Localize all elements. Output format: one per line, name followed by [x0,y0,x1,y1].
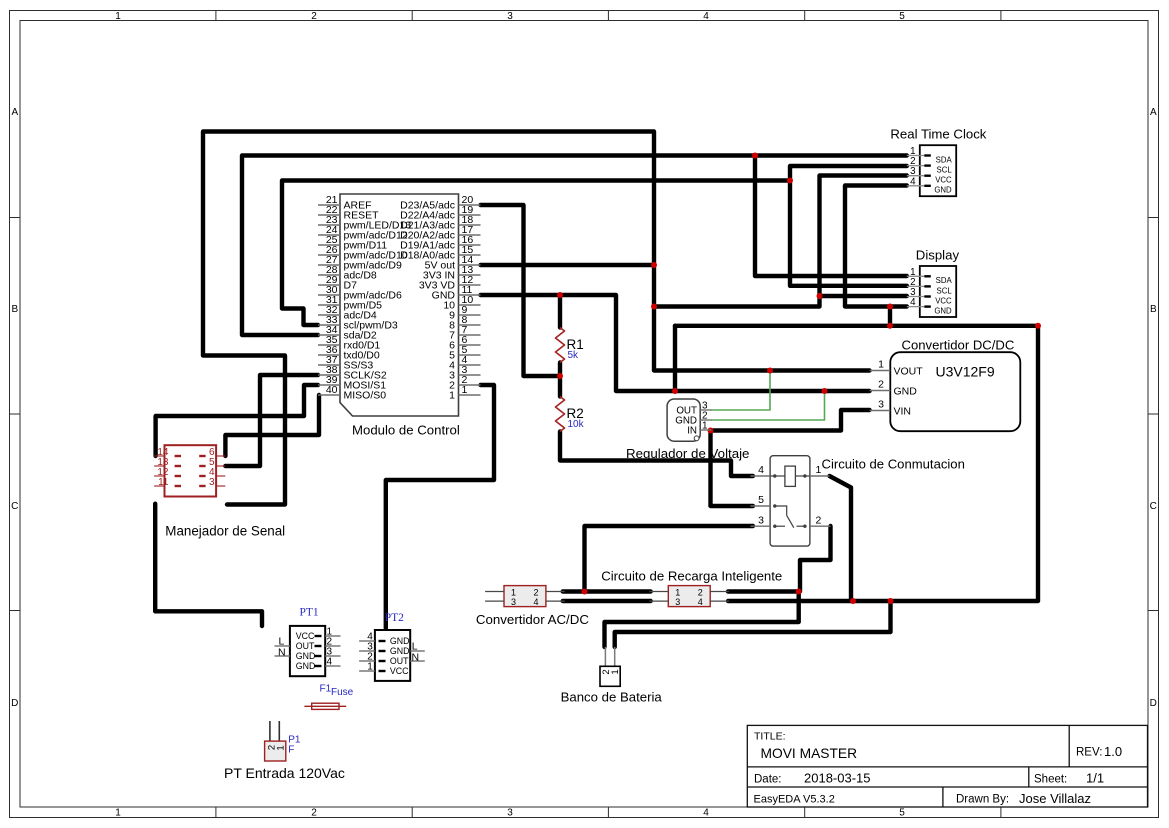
U1 pin 34 (sda/D2) [318,324,377,341]
svg-text:5k: 5k [568,350,580,361]
PT1 pin L [275,636,290,648]
wire GND (RTC pin 4 to Display pin 4) [845,186,907,307]
wire VCC (RTC pin 3) [654,176,907,307]
svg-text:REV:: REV: [1076,747,1102,759]
svg-text:Sheet:: Sheet: [1034,774,1067,786]
resistor R2 (10k) [556,397,585,432]
U1 pin 9 (9) [449,304,480,321]
U1 pin 23 (pwm/LED/D13) [318,214,411,231]
junction VCC display [817,293,823,299]
svg-text:2018-03-15: 2018-03-15 [804,771,871,786]
svg-text:Convertidor DC/DC: Convertidor DC/DC [902,338,1015,353]
U1 pin 22 (RESET) [318,204,379,221]
svg-text:B: B [11,304,18,315]
wire AC/DC to charger (bottom) [563,599,651,603]
svg-text:11: 11 [158,477,169,488]
U1 pin 4 (4) [449,354,480,371]
svg-text:VCC: VCC [296,631,315,641]
svg-text:B: B [1150,304,1157,315]
junction VCC [651,304,657,310]
U1 pin 33 (scl/pwm/D3) [318,314,398,331]
junction GND display [887,304,893,310]
regulator pin 3 (OUT) [676,401,711,417]
svg-text:1: 1 [115,11,121,22]
svg-text:2: 2 [533,587,538,597]
wire SDA branch to Display pin 1 [755,156,907,277]
U1 pin 5 (5) [449,344,480,361]
U1 pin 12 (3V3 VD) [419,274,481,291]
svg-text:SDA: SDA [936,276,953,285]
PT1 pin 4 [296,657,341,671]
relay switch contacts row [775,525,785,527]
svg-text:1: 1 [675,587,680,597]
svg-text:Real Time Clock: Real Time Clock [890,127,986,142]
U1 pin 38 (SCLK/S2) [318,364,387,381]
svg-text:F: F [288,744,294,755]
svg-text:5: 5 [899,11,905,22]
U3V12F9 pin 2 (GND) [870,379,918,398]
regulator pin 2 (GND) [675,411,711,427]
relay pin 2 [810,514,831,526]
junction GND [672,388,678,394]
junction charger input [582,589,588,595]
junction 5V out [651,262,657,268]
svg-text:D: D [1150,698,1157,709]
svg-text:3: 3 [209,477,215,488]
U1 pin 29 (D7) [318,274,357,291]
CN_RTC pin 4 [907,176,952,194]
svg-text:VOUT: VOUT [894,365,924,377]
wire relay pin 1 [830,476,852,601]
wire battery pin 2 [605,592,799,648]
U1 pin 20 (D23/A5/adc) [400,194,480,211]
svg-text:PT2: PT2 [385,612,404,624]
U3V12F9 pin 1 (VOUT) [870,359,924,378]
wire regulator GND (green) [712,391,825,420]
svg-text:2: 2 [816,514,822,526]
wire GND (U1 pin 11 to DC/DC pin 2) [481,295,870,391]
wire GND branch [888,307,892,326]
U1 pin 32 (adc/D4) [318,304,377,321]
U1 pin 2 (2) [449,374,480,391]
CN1 pin 6 [199,447,225,458]
U1 pin 3 (3) [449,364,480,381]
U1 pin 28 (adc/D8) [318,264,377,281]
svg-text:2: 2 [878,379,884,391]
wire SCL (RTC pin 2 to Display pin 2) [790,166,907,286]
PT2 pin 4 [359,632,409,646]
svg-text:GND: GND [934,186,952,195]
svg-text:VIN: VIN [894,405,912,417]
PT1 pin 3 [296,647,341,661]
junction charger output [796,589,802,595]
U1 pin 1 (1) [449,384,480,401]
svg-text:Circuito de Recarga Inteligent: Circuito de Recarga Inteligente [601,569,782,584]
battery connector Banco de Bateria [561,647,663,705]
junction SCL [787,178,793,184]
wire regulator OUT (green) [712,371,771,411]
wire SDA (U1 pin 34 to RTC pin 1) [242,156,907,336]
relay pin 5 [751,494,771,506]
U1 pin 6 (6) [449,334,480,351]
U1 pin 27 (pwm/adc/D9) [318,254,402,271]
svg-text:1: 1 [511,587,516,597]
svg-text:1: 1 [449,390,455,402]
PT2 pin 3 [359,642,409,656]
svg-text:5: 5 [899,808,905,819]
CN1 pin 13 [154,457,181,468]
PT2 pin 2 [359,652,409,666]
U1 pin 14 (5V out) [425,254,481,271]
svg-text:OUT: OUT [296,641,315,651]
svg-text:GND: GND [390,646,410,656]
svg-text:10k: 10k [568,419,585,430]
CN_DISP pin 4 [907,297,952,315]
title block [747,725,1147,807]
svg-text:GND: GND [296,651,316,661]
U3V12F9 pin 3 (VIN) [870,399,911,418]
U1 pin 40 (MISO/S0) [318,384,386,401]
wire stub near PT1 [155,504,262,626]
svg-text:SCL: SCL [937,166,953,175]
junction GND rail corner [1035,323,1041,329]
wire AC/DC to charger (top) [563,589,651,593]
svg-text:OUT: OUT [390,656,409,666]
wire relay pin 3 [585,526,754,592]
svg-text:1/1: 1/1 [1086,771,1104,786]
svg-text:Fuse: Fuse [331,687,354,698]
PT2 pin N [410,652,425,664]
svg-text:MOVI MASTER: MOVI MASTER [761,746,858,761]
regulator pin 1 (IN) [687,421,711,437]
svg-text:Circuito de Conmutacion: Circuito de Conmutacion [822,457,965,472]
PT2 pin L [410,641,425,653]
module U3V12F9 Convertidor DC/DC [870,338,1021,432]
CN_DISP pin 3 [907,287,952,305]
connector P1 (mains plug) [224,721,345,781]
svg-text:VCC: VCC [390,666,409,676]
junction R1/R2 node [557,373,563,379]
U1 pin 39 (MOSI/S1) [318,374,386,391]
svg-text:2: 2 [698,587,703,597]
wire battery pin 1 [615,601,891,647]
svg-text:4: 4 [910,297,916,308]
svg-text:SCL: SCL [937,286,953,295]
svg-text:GND: GND [934,307,952,316]
svg-text:PT Entrada 120Vac: PT Entrada 120Vac [224,765,345,781]
svg-text:Manejador de Senal: Manejador de Senal [165,524,285,539]
CN_RTC pin 2 [907,156,953,174]
svg-text:2: 2 [311,11,317,22]
regulator clock mark [694,436,699,441]
svg-text:1.0: 1.0 [1104,744,1122,759]
PT1 pin 2 [296,637,341,651]
svg-text:Banco de Bateria: Banco de Bateria [561,690,663,705]
transformer PT2 [359,612,425,681]
svg-text:1: 1 [115,808,121,819]
svg-text:N: N [412,652,420,664]
svg-text:1: 1 [702,421,708,432]
wire SCL (U1 pin 33) [282,181,790,326]
relay pin 3 [751,514,771,526]
wire U1 pin 39 to CN1 pin 14 [156,385,318,456]
U1 pin 19 (D22/A4/adc) [400,204,480,221]
U1 pin 26 (pwm/adc/D10) [318,244,408,261]
svg-text:D: D [11,698,18,709]
wire GND rail drop [673,326,677,391]
relay switch common (pin 5) [775,506,787,515]
resistor R1 (5k) [556,328,584,363]
svg-text:4: 4 [703,808,709,819]
svg-text:4: 4 [698,597,703,607]
wire R2 bottom to relay pin 4 [560,432,753,477]
svg-text:1: 1 [878,359,884,371]
svg-text:3: 3 [511,597,516,607]
svg-text:Convertidor AC/DC: Convertidor AC/DC [476,612,589,627]
CN_RTC pin 1 [907,146,953,164]
U1 pin 10 (10) [443,294,480,311]
wire R1 top lead [558,295,562,328]
CN_DISP pin 2 [907,277,953,295]
svg-text:C: C [11,501,18,512]
svg-text:3: 3 [878,399,884,411]
wire VCC net (pin header / 5V rail) [203,132,870,505]
junction VOUT green [767,368,773,374]
PT1 pin N [275,647,290,659]
svg-text:VCC: VCC [935,296,952,305]
IC U1 Modulo de Control [318,194,481,438]
svg-text:F1: F1 [320,683,332,694]
CN1 pin 4 [199,467,225,478]
wire charger pin 2 [728,589,799,593]
connector CN1 Manejador de Senal (red) [154,445,285,538]
junction R1 top [557,292,563,298]
svg-text:40: 40 [326,384,338,396]
wire VIN / relay pin 5 net [711,410,870,506]
wire U1 pin 2 to PT2 [386,385,494,628]
transformer PT1 [275,607,341,677]
U1 pin 35 (rxd0/D1) [318,334,380,351]
junction SDA [752,153,758,159]
module Convertidor AC/DC [485,586,565,607]
svg-text:1: 1 [367,662,373,673]
svg-text:4: 4 [327,657,333,668]
svg-text:C: C [1150,501,1157,512]
PT2 pin 1 [359,662,409,676]
svg-text:EasyEDA V5.3.2: EasyEDA V5.3.2 [754,794,835,806]
relay K1 Circuito de Conmutacion [751,456,965,546]
svg-text:3: 3 [507,11,513,22]
U1 pin 30 (pwm/adc/D6) [318,284,402,301]
wire VCC branch to Display pin 3 [820,294,907,298]
CN1 pin 12 [154,467,181,478]
svg-text:Regulador de Voltaje: Regulador de Voltaje [626,446,749,461]
junction GND rail [887,323,893,329]
U1 pin 17 (D20/A2/adc) [400,224,480,241]
CN1 pin 11 [154,477,181,488]
wire U1 pin 38 to CN1 pin 5 [225,375,318,466]
svg-text:N: N [278,647,286,659]
svg-text:TITLE:: TITLE: [754,731,786,743]
regulator U2 Regulador de Voltaje [626,399,749,461]
svg-text:Drawn By:: Drawn By: [956,794,1009,806]
junction GND green [822,388,828,394]
wire 5V out (U1 pin 14) [481,263,655,267]
U1 pin 18 (D21/A3/adc) [400,214,480,231]
U1 pin 31 (pwm/D5) [318,294,382,311]
svg-text:1: 1 [276,745,287,750]
U1 pin 36 (txd0/D0) [318,344,380,361]
svg-text:3: 3 [675,597,680,607]
svg-text:GND: GND [390,636,410,646]
U1 pin 25 (pwm/D11) [318,234,387,251]
PT1 pin 1 [296,627,341,641]
svg-text:1: 1 [610,669,621,674]
svg-text:GND: GND [894,385,918,397]
relay pin 4 [751,464,771,476]
svg-text:U3V12F9: U3V12F9 [936,364,995,380]
wire relay pin 2 [800,526,831,592]
svg-text:Jose Villalaz: Jose Villalaz [1019,791,1091,806]
relay coil [785,466,796,486]
U1 pin 7 (7) [449,324,480,341]
svg-text:3: 3 [758,514,764,526]
U1 pin 24 (pwm/adc/D12) [318,224,408,241]
module Circuito de Recarga [649,586,729,607]
wire GND rail right side [675,326,1038,601]
svg-text:PT1: PT1 [300,607,319,619]
svg-text:2: 2 [311,808,317,819]
wire divider tap (U1 pin 20) [481,205,561,376]
svg-text:4: 4 [758,464,764,476]
svg-text:4: 4 [533,597,538,607]
wire R1-R2 node [558,363,562,397]
CN1 pin 5 [199,457,225,468]
svg-text:A: A [11,107,18,118]
svg-text:Date:: Date: [754,774,782,786]
svg-text:4: 4 [910,176,916,187]
svg-text:Modulo de Control: Modulo de Control [352,423,460,438]
U1 pin 21 (AREF) [318,194,372,211]
CN_RTC pin 3 [907,166,952,184]
U1 pin 16 (D19/A1/adc) [400,234,480,251]
svg-text:1: 1 [462,384,468,396]
relay switch arm [787,515,794,527]
U1 pin 13 (3V3 IN) [423,264,481,281]
svg-text:Display: Display [916,248,960,263]
svg-text:3: 3 [507,808,513,819]
junction battery net [888,598,894,604]
CN_DISP pin 1 [907,267,953,285]
relay pin 1 [810,464,830,476]
CN1 pin 14 [154,447,181,458]
U1 pin 37 (SS/S3) [318,354,373,371]
svg-text:GND: GND [296,661,316,671]
U1 pin 8 (8) [449,314,480,331]
svg-text:4: 4 [703,11,709,22]
svg-text:5: 5 [758,494,764,506]
svg-text:SDA: SDA [936,155,953,164]
wire U1 pin 40 to CN1 pin 6 [225,395,319,456]
svg-text:MISO/S0: MISO/S0 [344,390,387,402]
svg-text:IN: IN [687,425,697,436]
connector CN_DISP [907,248,960,318]
svg-text:VCC: VCC [935,176,952,185]
CN1 pin 3 [199,477,225,488]
U1 pin 15 (D18/A0/adc) [400,244,480,261]
U1 pin 11 (GND) [432,284,481,301]
junction regulator IN [708,428,714,434]
connector CN_RTC [890,127,986,197]
junction relay pin1 net [850,598,856,604]
fuse F1 [304,683,353,709]
svg-text:A: A [1150,107,1157,118]
